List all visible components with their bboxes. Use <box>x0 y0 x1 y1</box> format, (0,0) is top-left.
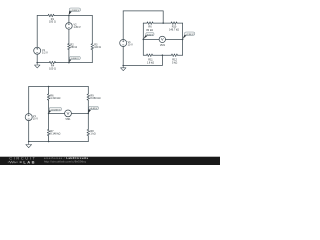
svg-text:4.00 V: 4.00 V <box>147 34 154 36</box>
wire C right vertical top <box>87 87 89 94</box>
svg-text:+1.800 V: +1.800 V <box>70 10 79 12</box>
svg-text:+6.49 V: +6.49 V <box>90 108 98 110</box>
voltage source V1 (circuit B) <box>120 40 127 47</box>
svg-text:5 kΩ: 5 kΩ <box>172 61 177 64</box>
svg-text:=LAB: =LAB <box>20 160 37 165</box>
svg-text:+2.64 V: +2.64 V <box>186 34 194 36</box>
svg-text:+6.5203 V: +6.5203 V <box>50 109 61 111</box>
wire C left vertical lower <box>28 121 30 142</box>
wire B inner right vertical <box>182 23 184 55</box>
svg-text:10 V: 10 V <box>33 118 38 121</box>
resistor R6 (circuit C) <box>47 94 50 100</box>
wire C top rail <box>29 86 89 88</box>
voltmeter VM1 (circuit B) <box>159 36 165 42</box>
node label flag A-top <box>69 8 81 15</box>
voltage source V1 (circuit C) <box>25 114 32 121</box>
svg-text:1.80 V: 1.80 V <box>74 26 82 29</box>
wire C inner-left vertical mid <box>48 100 50 129</box>
svg-text:VM1: VM1 <box>160 44 166 47</box>
node B bottom-center junction <box>162 54 164 56</box>
wire A middle branch lower <box>68 50 70 63</box>
wire C inner-left vertical bottom <box>48 136 50 142</box>
wire A top rail right segment <box>54 15 92 17</box>
svg-text:1 kΩ: 1 kΩ <box>90 133 95 136</box>
voltage source V2 <box>66 23 73 30</box>
wire A right vertical upper <box>91 16 93 44</box>
node A bottom-left junction <box>36 62 38 64</box>
wire B left vertical lower <box>122 47 124 66</box>
resistor R3 <box>91 44 94 50</box>
wire C inner-left vertical top <box>48 87 50 94</box>
wire C middle row right <box>71 112 88 114</box>
resistor R11 <box>147 54 153 57</box>
node label flag C-right <box>88 106 98 113</box>
svg-text:4.310 kΩ: 4.310 kΩ <box>50 97 60 100</box>
wire B middle row left <box>143 38 159 40</box>
svg-text:100 Ω: 100 Ω <box>49 67 56 70</box>
node label flag B-left <box>143 33 154 40</box>
voltage source V1 <box>34 47 41 54</box>
labels circuit B <box>128 26 180 65</box>
wire A left vertical <box>36 16 38 48</box>
node label flag A-bottom <box>69 56 80 62</box>
node label flag B-right <box>183 32 195 39</box>
wire B feed drop <box>162 11 164 23</box>
voltmeter VM1 (circuit C) <box>65 110 72 117</box>
wire B left vertical upper <box>122 11 124 40</box>
resistor R10 <box>171 22 177 25</box>
resistor R9 <box>87 94 90 100</box>
node label flag C-left <box>49 107 62 113</box>
svg-text:1.8 kΩ: 1.8 kΩ <box>147 61 154 64</box>
ground (circuit B) <box>121 66 127 71</box>
resistor R4 <box>49 61 55 64</box>
wire B top rail <box>123 10 163 12</box>
node C top junction <box>48 86 50 88</box>
wire A top rail left segment <box>37 15 48 17</box>
wire B ground drop and bottom rail <box>123 55 162 65</box>
ground (circuit A) <box>35 63 41 68</box>
svg-text:VM1: VM1 <box>65 118 71 121</box>
wire A left vertical lower <box>36 54 38 62</box>
node C bottom-left junction <box>28 141 30 143</box>
node C mid-right junction <box>88 113 90 115</box>
svg-text:5.2 V: 5.2 V <box>42 52 48 55</box>
resistor R7 <box>47 129 50 135</box>
wire B inner top row mid <box>153 22 171 24</box>
ground (circuit C) <box>26 142 32 148</box>
node B bottom-left junction <box>122 65 124 67</box>
node B top-center junction <box>162 22 164 24</box>
node C mid-left junction <box>48 113 50 115</box>
resistor R2 <box>68 44 71 50</box>
svg-text:0.000 V: 0.000 V <box>71 58 79 60</box>
resistor R12 <box>171 54 177 57</box>
resistor R1 <box>48 14 54 17</box>
svg-text:100 Ω: 100 Ω <box>49 21 56 24</box>
node B mid-right junction <box>182 39 184 41</box>
attribution text <box>44 156 89 163</box>
labels circuit C <box>33 94 101 135</box>
logo resistor glyph <box>8 161 18 163</box>
node A-bottom junction <box>68 62 70 64</box>
wire B inner bottom row left <box>143 54 146 56</box>
wire B middle row right <box>166 38 183 40</box>
wire A middle branch upper <box>68 16 70 23</box>
wire B inner top row left <box>143 22 147 24</box>
CircuitLab logo wordmark <box>8 156 37 165</box>
wire A middle branch mid <box>68 29 70 43</box>
svg-text:8.148 kΩ: 8.148 kΩ <box>50 133 60 136</box>
resistor R8 <box>87 129 90 135</box>
wire A bottom rail left segment <box>37 62 49 64</box>
node B mid-left junction <box>143 39 145 41</box>
resistor R6 <box>147 22 153 25</box>
wire C left vertical upper <box>28 87 30 114</box>
wire C middle row left <box>49 112 65 114</box>
footer band <box>0 157 220 165</box>
svg-text:http://circuitlab.com/c/8e59tk: http://circuitlab.com/c/8e59tkq <box>44 160 86 164</box>
svg-text:100 Ω: 100 Ω <box>94 46 101 49</box>
svg-text:146.7 kΩ: 146.7 kΩ <box>169 29 179 32</box>
svg-text:250 Ω: 250 Ω <box>70 46 77 49</box>
wire B inner top row right <box>177 22 183 24</box>
svg-text:8.060 kΩ: 8.060 kΩ <box>90 97 100 100</box>
wire B inner bottom row mid <box>153 54 172 56</box>
node A-top junction <box>68 15 70 17</box>
svg-text:80 kΩ: 80 kΩ <box>146 29 153 32</box>
svg-text:10 V: 10 V <box>128 43 133 46</box>
node C bottom junction <box>48 141 50 143</box>
wire B inner bottom row right <box>178 54 183 56</box>
wire B inner left vertical <box>142 23 144 55</box>
wire A bottom rail right segment <box>56 62 93 64</box>
wire C bottom rail <box>29 141 89 143</box>
wire C right vertical mid <box>87 100 89 129</box>
labels circuit A <box>42 18 101 71</box>
wire C right vertical bottom <box>87 136 89 142</box>
wire A right vertical lower <box>91 50 93 63</box>
